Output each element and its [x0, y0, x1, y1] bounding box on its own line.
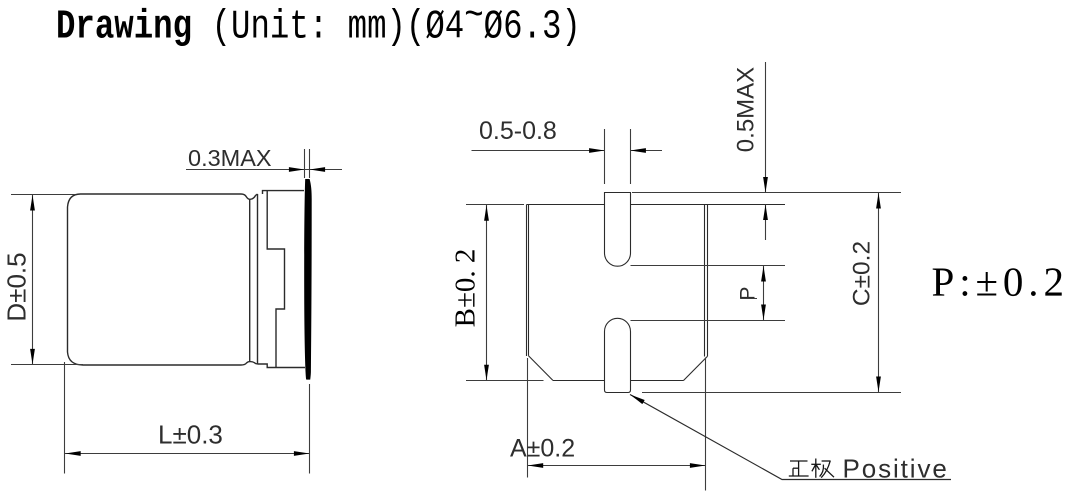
package right edge, bottom view (double line) — [705, 205, 708, 357]
dimension 0.5-0.8 dimension line — [472, 150, 663, 152]
svg-text:P:±0.2: P:±0.2 — [932, 259, 1069, 305]
hanzi 极 — [811, 459, 834, 478]
capacitor can body outline (side view) — [68, 194, 242, 365]
dimension A±0.2 extension lines — [528, 358, 706, 491]
dimension D±0.5 arrowheads — [30, 195, 35, 364]
package top edge right segment + 0.5MAX lower reference extension — [631, 204, 786, 206]
package chamfer bottom-left — [529, 356, 554, 381]
dimension B±0.2 dimension line — [486, 205, 488, 380]
dimension B±0.2 arrowheads — [484, 205, 489, 380]
dimension 0.3MAX arrowheads — [289, 167, 325, 172]
can rim vertical 2 — [257, 194, 259, 364]
svg-text:(Unit: mm)(Ø4~Ø6.3): (Unit: mm)(Ø4~Ø6.3) — [212, 0, 581, 51]
svg-text:0.5MAX: 0.5MAX — [733, 67, 760, 152]
title "Drawing (Unit: mm)(Ø4~Ø6.3)" — [56, 0, 581, 51]
package bottom edge segments — [553, 380, 684, 382]
dimension P dimension line — [763, 266, 765, 320]
pad-top extension line — [632, 192, 901, 194]
dimension D±0.5 dimension line — [32, 195, 34, 365]
pad-bottom extension line — [642, 392, 901, 394]
dimension P arrowheads — [761, 266, 766, 320]
svg-text:Positive: Positive — [843, 453, 949, 483]
dimension C±0.2 dimension line — [878, 193, 880, 392]
P reference line upper — [631, 265, 786, 267]
dimension 0.3MAX extension lines — [305, 149, 310, 178]
leader line to positive pad — [630, 395, 951, 480]
svg-text:C±0.2: C±0.2 — [849, 241, 876, 306]
P reference line lower — [631, 320, 786, 322]
package left edge, bottom view (double line) — [527, 205, 529, 357]
seat plate stepped profile (side view) — [267, 191, 284, 368]
dimension A±0.2 arrowheads — [528, 463, 706, 468]
svg-text:0.5-0.8: 0.5-0.8 — [479, 117, 557, 145]
svg-text:D±0.5: D±0.5 — [2, 252, 32, 321]
dimension L±0.3 dimension line — [65, 453, 310, 455]
dimension B±0.2 extension lines — [466, 205, 544, 381]
dimension D±0.5 extension lines — [11, 195, 83, 365]
can rim vertical 1 — [249, 199, 251, 361]
dimension 0.5MAX dimension lines — [765, 62, 767, 240]
svg-text:L±0.3: L±0.3 — [158, 420, 223, 450]
dimension L±0.3 arrowheads — [65, 451, 309, 456]
can crimp dip top — [241, 194, 258, 199]
lead terminal edge-on (black) — [304, 179, 312, 380]
leader arrowhead — [629, 392, 645, 404]
seat plate bottom edge (side view) — [258, 364, 306, 368]
package top edge left segment — [527, 204, 605, 206]
svg-text:Drawing: Drawing — [56, 4, 192, 50]
dimension 0.5MAX arrowheads — [763, 177, 768, 220]
label P underline — [741, 298, 758, 300]
dimension 0.3MAX dimension line — [186, 169, 342, 171]
top solder pad (positive lead slot) — [605, 193, 631, 267]
svg-text:0.3MAX: 0.3MAX — [188, 145, 272, 171]
svg-text:A±0.2: A±0.2 — [510, 435, 575, 463]
dimension A±0.2 dimension line — [528, 465, 706, 467]
bottom solder pad (positive lead) — [605, 318, 631, 392]
dimension C±0.2 arrowheads — [876, 193, 881, 392]
dimension L±0.3 extension lines — [65, 362, 310, 474]
dimension 0.5-0.8 extension lines — [605, 129, 631, 184]
can crimp dip bottom — [241, 362, 258, 365]
svg-text:B±0. 2: B±0. 2 — [450, 249, 482, 328]
package chamfer bottom-right — [684, 356, 708, 380]
seat plate top edge (side view) — [263, 191, 305, 194]
hanzi 正 — [789, 461, 809, 476]
dimension 0.5-0.8 arrowheads — [589, 148, 646, 153]
